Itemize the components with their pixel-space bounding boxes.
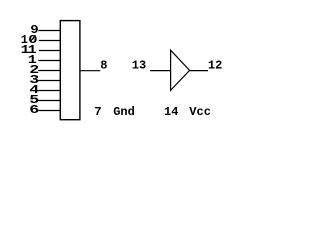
svg-text:Vcc: Vcc (189, 105, 211, 119)
svg-text:13: 13 (132, 58, 146, 72)
pin 5 wire (38, 100, 60, 102)
pin 6 wire (38, 110, 60, 112)
slash of zero in pin 10 label (30, 35, 35, 41)
pin 13 wire (buffer input) (150, 70, 171, 72)
buffer U2 triangle (171, 50, 190, 90)
svg-text:Gnd: Gnd (113, 105, 135, 119)
svg-text:7: 7 (94, 105, 101, 119)
pin 10 wire (39, 40, 61, 42)
pin 9 wire (38, 30, 60, 32)
pin 8 wire (80, 70, 100, 72)
pin 11 wire (39, 50, 61, 52)
svg-text:8: 8 (100, 58, 107, 72)
pin 4 wire (38, 90, 60, 92)
svg-text:14: 14 (164, 105, 178, 119)
pin 1 wire (38, 60, 60, 62)
pin 3 wire (38, 80, 60, 82)
svg-text:12: 12 (208, 58, 222, 72)
pin 2 wire (38, 70, 60, 72)
svg-text:6: 6 (29, 103, 39, 117)
pin 12 wire (buffer output) (190, 70, 208, 72)
IC U1 body (60, 21, 80, 120)
